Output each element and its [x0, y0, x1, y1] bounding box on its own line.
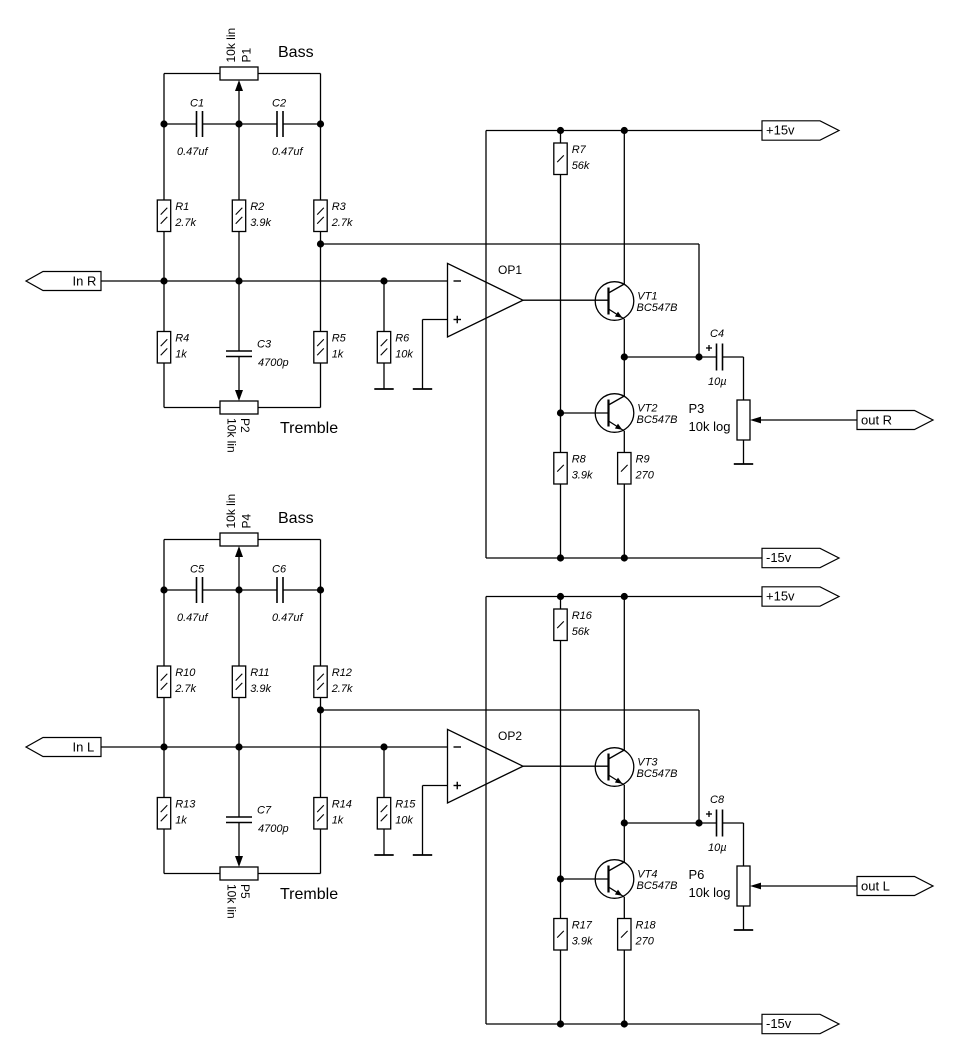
svg-text:1k: 1k [332, 815, 344, 827]
svg-text:56k: 56k [572, 626, 590, 638]
junction [235, 743, 242, 750]
svg-text:P2: P2 [238, 418, 252, 433]
resistor R10 [157, 666, 196, 698]
wire [623, 597, 625, 751]
wire [486, 130, 762, 132]
junction [695, 819, 702, 826]
svg-text:10k: 10k [395, 815, 413, 827]
svg-text:+15v: +15v [766, 589, 795, 604]
transistor VT1 BC547B [595, 282, 677, 321]
wire [258, 407, 321, 409]
wire [283, 123, 321, 125]
ground [413, 320, 432, 390]
wire [560, 597, 562, 610]
wire [723, 822, 744, 824]
wire [321, 243, 700, 245]
svg-text:0.47uf: 0.47uf [177, 146, 209, 158]
junction [621, 819, 628, 826]
ground [374, 363, 393, 389]
svg-text:0.47uf: 0.47uf [272, 612, 304, 624]
capacitor C1 [177, 97, 209, 158]
resistor R16 [554, 609, 593, 641]
svg-text:In L: In L [73, 740, 95, 755]
wire [203, 589, 278, 591]
svg-text:10k lin: 10k lin [225, 418, 239, 453]
junction [317, 240, 324, 247]
wire [383, 281, 385, 332]
output connector out L [857, 877, 933, 896]
junction [235, 120, 242, 127]
svg-text:BC547B: BC547B [637, 880, 678, 892]
junction [317, 706, 324, 713]
wire [163, 540, 165, 667]
junction [380, 277, 387, 284]
svg-text:4700p: 4700p [258, 357, 289, 369]
wire [624, 822, 716, 824]
resistor R4 [157, 332, 189, 364]
op-amp OP1 [448, 263, 524, 337]
svg-text:R9: R9 [636, 454, 650, 466]
capacitor C2 [272, 97, 304, 158]
junction [160, 743, 167, 750]
wire [623, 357, 625, 396]
svg-text:R4: R4 [175, 333, 189, 345]
resistor R5 [314, 332, 347, 364]
svg-text:-15v: -15v [766, 550, 792, 565]
svg-text:VT3: VT3 [637, 757, 658, 769]
transistor VT3 BC547B [595, 748, 677, 787]
junction [621, 1020, 628, 1027]
wire [258, 73, 321, 75]
svg-text:P1: P1 [240, 47, 254, 62]
wire [723, 356, 744, 358]
svg-text:BC547B: BC547B [637, 414, 678, 426]
svg-text:1k: 1k [332, 349, 344, 361]
svg-text:R16: R16 [572, 610, 593, 622]
wire [560, 483, 562, 558]
svg-text:C8: C8 [710, 794, 725, 806]
wire [698, 710, 700, 823]
junction [317, 586, 324, 593]
wire [623, 319, 625, 357]
wire [560, 641, 562, 919]
svg-text:Bass: Bass [278, 44, 314, 61]
svg-text:3.9k: 3.9k [250, 217, 271, 229]
svg-text:10µ: 10µ [708, 376, 727, 388]
svg-text:C2: C2 [272, 97, 286, 109]
potentiometer P6 10k log [689, 866, 762, 906]
svg-text:R15: R15 [395, 799, 416, 811]
resistor R13 [157, 798, 196, 830]
wire [320, 698, 322, 798]
junction [621, 554, 628, 561]
svg-text:R14: R14 [332, 799, 352, 811]
resistor R8 [554, 453, 593, 485]
svg-text:-15v: -15v [766, 1016, 792, 1031]
transistor VT2 BC547B [595, 394, 677, 433]
resistor R14 [314, 798, 352, 830]
svg-text:56k: 56k [572, 160, 590, 172]
svg-text:2.7k: 2.7k [174, 683, 196, 695]
junction [235, 586, 242, 593]
svg-text:10k log: 10k log [689, 885, 731, 900]
wire [238, 823, 240, 858]
resistor R9 [618, 453, 655, 485]
svg-text:out R: out R [861, 413, 892, 428]
wire [238, 232, 240, 352]
potentiometer P4 10k lin [220, 494, 258, 557]
svg-text:P6: P6 [689, 867, 705, 882]
svg-text:2.7k: 2.7k [331, 217, 353, 229]
wire [486, 557, 762, 559]
svg-text:R12: R12 [332, 667, 352, 679]
wire [164, 73, 220, 75]
svg-text:R2: R2 [250, 201, 264, 213]
svg-text:Tremble: Tremble [280, 420, 338, 437]
power connector -15v [762, 1014, 839, 1033]
svg-text:R3: R3 [332, 201, 347, 213]
wire [320, 232, 322, 332]
svg-text:2.7k: 2.7k [331, 683, 353, 695]
svg-text:P5: P5 [238, 884, 252, 899]
junction [380, 743, 387, 750]
wire [320, 74, 322, 201]
wire [560, 949, 562, 1024]
wire [560, 131, 562, 144]
resistor R1 [157, 200, 196, 232]
wire [623, 483, 625, 558]
potentiometer P3 10k log [689, 400, 762, 440]
wire [238, 124, 240, 200]
svg-text:+15v: +15v [766, 123, 795, 138]
svg-text:270: 270 [635, 470, 655, 482]
wire [623, 823, 625, 862]
junction [621, 127, 628, 134]
svg-text:10k lin: 10k lin [224, 494, 238, 529]
wire [164, 407, 220, 409]
junction [557, 1020, 564, 1027]
svg-text:P3: P3 [689, 401, 705, 416]
wire [423, 319, 448, 321]
junction [160, 120, 167, 127]
svg-text:In R: In R [73, 274, 97, 289]
svg-text:VT1: VT1 [637, 291, 657, 303]
wire [238, 91, 240, 125]
wire [238, 590, 240, 666]
wire [163, 74, 165, 201]
wire [320, 363, 322, 408]
wire [623, 431, 625, 453]
svg-text:2.7k: 2.7k [174, 217, 196, 229]
wire [623, 897, 625, 919]
svg-text:R8: R8 [572, 454, 587, 466]
potentiometer P5 10k lin [220, 856, 258, 919]
svg-text:C7: C7 [257, 804, 272, 816]
junction [695, 353, 702, 360]
wire [698, 244, 700, 357]
svg-text:3.9k: 3.9k [572, 470, 593, 482]
svg-text:C1: C1 [190, 97, 204, 109]
wire [320, 540, 322, 667]
svg-text:10µ: 10µ [708, 842, 727, 854]
resistor R7 [554, 143, 590, 175]
wire [238, 698, 240, 818]
wire [283, 589, 321, 591]
wire [561, 412, 609, 414]
junction [557, 593, 564, 600]
wire [101, 280, 448, 282]
svg-text:OP2: OP2 [498, 729, 522, 743]
input connector In R [26, 272, 101, 291]
svg-text:1k: 1k [175, 815, 187, 827]
svg-text:BC547B: BC547B [637, 768, 678, 780]
wire [164, 873, 220, 875]
svg-text:10k lin: 10k lin [225, 884, 239, 919]
wire [623, 785, 625, 823]
ground [413, 786, 432, 856]
capacitor C3 [226, 338, 289, 369]
wire [623, 949, 625, 1024]
junction [557, 875, 564, 882]
svg-text:3.9k: 3.9k [250, 683, 271, 695]
wire [486, 1023, 762, 1025]
wire [623, 131, 625, 285]
junction [160, 586, 167, 593]
svg-text:C6: C6 [272, 563, 287, 575]
power connector +15v [762, 587, 839, 606]
resistor R12 [314, 666, 353, 698]
svg-text:BC547B: BC547B [637, 302, 678, 314]
svg-text:0.47uf: 0.47uf [177, 612, 209, 624]
svg-text:R18: R18 [636, 920, 657, 932]
wire [561, 878, 609, 880]
svg-text:10k lin: 10k lin [224, 28, 238, 63]
svg-text:4700p: 4700p [258, 823, 289, 835]
resistor R15 [377, 798, 416, 830]
wire [203, 123, 278, 125]
wire [624, 356, 716, 358]
resistor R3 [314, 200, 353, 232]
svg-text:VT2: VT2 [637, 403, 657, 415]
svg-text:10k log: 10k log [689, 419, 731, 434]
ground [374, 829, 393, 855]
wire [258, 539, 321, 541]
wire [743, 357, 745, 400]
potentiometer P2 10k lin [220, 390, 258, 453]
svg-text:3.9k: 3.9k [572, 936, 593, 948]
potentiometer P1 10k lin [220, 28, 258, 91]
power connector -15v [762, 548, 839, 567]
junction [557, 127, 564, 134]
svg-text:VT4: VT4 [637, 869, 657, 881]
wire [238, 557, 240, 591]
wire [164, 539, 220, 541]
ground [734, 906, 753, 930]
capacitor C7 [226, 804, 289, 835]
op-amp OP2 [448, 729, 524, 803]
wire [761, 885, 857, 887]
wire [163, 232, 165, 332]
svg-text:R1: R1 [175, 201, 189, 213]
svg-text:out L: out L [861, 879, 890, 894]
svg-text:0.47uf: 0.47uf [272, 146, 304, 158]
wire [320, 829, 322, 874]
transistor VT4 BC547B [595, 860, 677, 899]
svg-text:R11: R11 [250, 667, 269, 679]
wire [164, 589, 197, 591]
wire [761, 419, 857, 421]
wire [523, 299, 609, 301]
svg-text:C4: C4 [710, 328, 724, 340]
svg-text:C3: C3 [257, 338, 272, 350]
svg-text:1k: 1k [175, 349, 187, 361]
wire [238, 357, 240, 392]
wire [560, 175, 562, 453]
resistor R17 [554, 919, 593, 951]
wire [321, 709, 700, 711]
resistor R11 [232, 666, 271, 698]
capacitor C4 [706, 328, 727, 388]
svg-text:OP1: OP1 [498, 263, 522, 277]
power connector +15v [762, 121, 839, 140]
wire [485, 131, 487, 559]
junction [621, 593, 628, 600]
svg-text:R13: R13 [175, 799, 196, 811]
input connector In L [26, 738, 101, 757]
junction [621, 353, 628, 360]
wire [101, 746, 448, 748]
wire [743, 823, 745, 866]
junction [557, 409, 564, 416]
svg-text:Bass: Bass [278, 510, 314, 527]
svg-text:10k: 10k [395, 349, 413, 361]
wire [486, 596, 762, 598]
junction [235, 277, 242, 284]
resistor R6 [377, 332, 413, 364]
svg-text:270: 270 [635, 936, 655, 948]
svg-text:R6: R6 [395, 333, 410, 345]
junction [317, 120, 324, 127]
wire [163, 829, 165, 874]
output connector out R [857, 411, 933, 430]
junction [160, 277, 167, 284]
wire [164, 123, 197, 125]
wire [485, 597, 487, 1025]
junction [557, 554, 564, 561]
resistor R2 [232, 200, 271, 232]
svg-text:R7: R7 [572, 144, 587, 156]
wire [258, 873, 321, 875]
svg-text:P4: P4 [240, 513, 254, 528]
svg-text:R5: R5 [332, 333, 347, 345]
svg-text:R17: R17 [572, 920, 593, 932]
wire [383, 747, 385, 798]
capacitor C8 [706, 794, 727, 854]
capacitor C5 [177, 563, 209, 624]
wire [163, 363, 165, 408]
svg-text:C5: C5 [190, 563, 205, 575]
wire [163, 698, 165, 798]
wire [523, 765, 609, 767]
ground [734, 440, 753, 464]
capacitor C6 [272, 563, 304, 624]
resistor R18 [618, 919, 657, 951]
wire [423, 785, 448, 787]
svg-text:R10: R10 [175, 667, 196, 679]
svg-text:Tremble: Tremble [280, 886, 338, 903]
